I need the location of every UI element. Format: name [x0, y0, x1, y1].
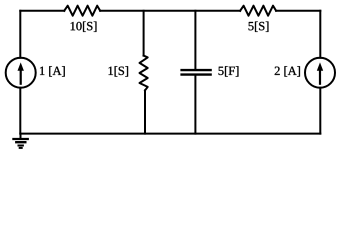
wire left vertical upper: [19, 11, 21, 58]
resistor R2 5[S]: [240, 6, 276, 16]
current source I2 circle: [305, 58, 335, 88]
label 5[S]: [249, 22, 269, 32]
current source I1 arrow: [18, 62, 24, 84]
wire middle branch lower stub: [144, 90, 146, 133]
wire right vertical lower: [319, 88, 321, 134]
resistor R1 10[S]: [64, 6, 100, 16]
ground: [12, 134, 29, 148]
capacitor C1 5[F] plates: [180, 70, 211, 75]
label 1 [A]: [40, 66, 65, 76]
wire left vertical lower: [19, 88, 21, 134]
wire capacitor branch lower: [194, 76, 196, 134]
wire bottom: [20, 133, 320, 135]
wire top-left segment: [20, 10, 64, 12]
wire top-middle segment: [100, 10, 240, 12]
label 2 [A]: [275, 66, 300, 76]
wire middle branch upper stub: [143, 11, 145, 56]
label 1[S]: [109, 66, 128, 76]
current source I1 circle: [6, 58, 36, 88]
current source I2 arrow: [317, 62, 323, 84]
wire capacitor branch upper: [194, 11, 196, 69]
wire right vertical upper: [319, 11, 321, 58]
label 5[F]: [219, 66, 239, 76]
label 10[S]: [71, 22, 97, 32]
wire top-right segment: [276, 10, 320, 12]
resistor R3 1[S]: [140, 56, 148, 91]
